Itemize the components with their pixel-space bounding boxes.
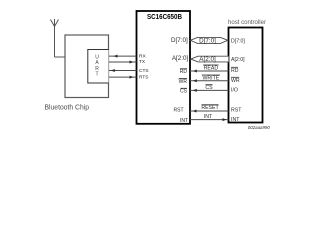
- svg-text:A[2:0]: A[2:0]: [231, 57, 245, 63]
- svg-text:INT: INT: [180, 118, 188, 124]
- svg-text:D[7:0]: D[7:0]: [199, 38, 216, 45]
- svg-text:CS: CS: [180, 89, 188, 95]
- svg-text:RESET: RESET: [201, 105, 219, 111]
- svg-text:RTS: RTS: [139, 75, 149, 81]
- svg-text:RX: RX: [139, 53, 146, 59]
- svg-text:RST: RST: [231, 107, 242, 113]
- svg-text:CS: CS: [205, 85, 213, 91]
- svg-text:WR: WR: [231, 78, 240, 84]
- svg-text:SC16C650B: SC16C650B: [147, 14, 182, 21]
- svg-text:WR: WR: [179, 79, 188, 85]
- svg-text:A[2:0]: A[2:0]: [199, 56, 216, 63]
- svg-text:CTS: CTS: [139, 68, 149, 74]
- svg-text:D[7:0]: D[7:0]: [171, 37, 188, 44]
- svg-text:002aaa990: 002aaa990: [248, 125, 270, 130]
- svg-text:READ: READ: [204, 65, 219, 71]
- svg-text:RD: RD: [180, 69, 188, 75]
- svg-text:RST: RST: [174, 108, 184, 114]
- svg-text:INT: INT: [204, 114, 213, 120]
- svg-text:T: T: [95, 71, 98, 77]
- svg-text:INT: INT: [231, 117, 240, 123]
- svg-text:TX: TX: [139, 59, 146, 65]
- svg-text:D[7:0]: D[7:0]: [231, 38, 245, 44]
- svg-text:I/O: I/O: [231, 87, 238, 93]
- svg-text:WRITE: WRITE: [203, 75, 220, 81]
- svg-text:RD: RD: [231, 68, 239, 74]
- svg-text:Bluetooth Chip: Bluetooth Chip: [45, 104, 90, 112]
- svg-text:host controller: host controller: [228, 19, 266, 26]
- svg-text:A[2:0]: A[2:0]: [172, 55, 189, 62]
